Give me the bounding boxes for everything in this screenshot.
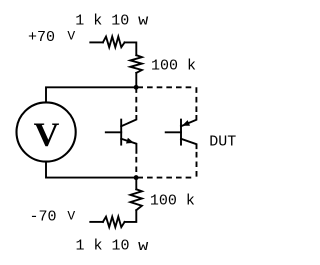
wire -70V supply lead [90,221,103,223]
wire dashed top-right corner down to Q2 emitter [195,87,197,112]
svg-text:1 k 10: 1 k 10 [75,12,129,29]
wire 100 k to node A [135,73,137,87]
resistor 1 k 10 W bottom (horizontal zigzag) [103,217,125,227]
svg-text:100 k: 100 k [151,58,196,75]
wire dashed Q1 emitter down to node B [135,157,137,175]
transistor Q1 base lead [106,131,121,133]
wire voltmeter bottom to node B [46,162,136,178]
wire dashed bottom-right corner to node B [137,177,191,179]
transistor Q2 collector lead [181,139,197,148]
svg-text:V: V [34,117,60,154]
node B junction dot [134,175,139,180]
svg-text:1 k 10: 1 k 10 [76,238,130,255]
transistor Q1 emitter lead [121,139,136,153]
svg-text:100 k: 100 k [150,193,195,210]
transistor Q2 base lead [166,131,181,133]
voltmeter U1 circle [16,102,75,161]
transistor Q1 emitter arrow [126,138,134,144]
transistor Q2 emitter arrow [182,120,190,126]
wire corner from bottom 100 k to bottom resistor [125,210,137,222]
node A junction dot [134,85,139,90]
wire node B to bottom 100 k [135,178,137,190]
transistor Q2 emitter lead [181,116,196,126]
transistor Q2 (DUT) body bar [180,120,182,145]
wire node A to voltmeter top [46,87,136,102]
wire +70V supply lead [90,41,103,43]
svg-text:V: V [67,209,75,224]
svg-text:+70: +70 [28,29,55,46]
resistor 1 k 10 W top (horizontal zigzag) [103,37,125,48]
wire dashed node A to top-right corner [137,86,191,88]
transistor Q1 collector lead [121,116,136,126]
svg-text:V: V [67,29,75,44]
resistor 100 k bottom (vertical zigzag) [130,189,142,210]
resistor 100 k top (vertical zigzag) [130,55,142,73]
svg-text:W: W [138,15,149,29]
svg-text:W: W [138,240,149,254]
wire dashed node A down to Q1 collector [135,87,137,112]
svg-text:DUT: DUT [209,134,236,151]
svg-text:-70: -70 [30,209,57,226]
transistor Q1 body bar [120,120,122,145]
wire dashed Q2 collector down to bottom-right corner [196,152,198,178]
wire corner from top resistor to 100 k [125,42,137,55]
